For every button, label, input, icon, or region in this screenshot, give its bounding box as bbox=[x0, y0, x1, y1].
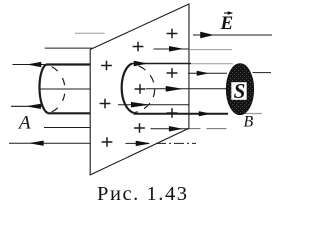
vector E label arrow bbox=[224, 12, 230, 14]
cylinder A top side bbox=[46, 63, 91, 65]
field line y=128.8 continuation beyond plane edge bbox=[190, 128, 201, 130]
field line E (top right) bbox=[193, 34, 272, 36]
arrowhead (right) on y=128.8 field line bbox=[169, 126, 181, 131]
cylinder A cap (hidden half, dashed) bbox=[46, 65, 65, 114]
field line y=73.3 bbox=[188, 72, 227, 74]
field line (left, y=143) bbox=[9, 142, 91, 144]
plus charge row2 col-mid bbox=[133, 42, 144, 51]
arrowhead (right) on cylinder B top side bbox=[134, 61, 147, 66]
arrowhead (left) on y=143 field line bbox=[30, 141, 43, 146]
cylinder B cap (hidden half, dashed) bbox=[132, 64, 155, 113]
field line y=143.4 bbox=[126, 142, 150, 144]
svg-text:B: B bbox=[244, 114, 254, 131]
field line y=128.8 bbox=[151, 128, 190, 130]
field line y=49 continuation (faint) bbox=[190, 49, 232, 51]
arrowhead (right) on cylinder B axis line bbox=[166, 86, 181, 91]
svg-text:E: E bbox=[220, 13, 234, 34]
plus charge row1 col-right bbox=[167, 29, 178, 38]
cylinder B bottom side continuation (faint) bbox=[244, 113, 262, 115]
disk S (shaded end cap) bbox=[226, 64, 253, 115]
field line (left, faint, y=33) bbox=[75, 32, 105, 34]
field line (left, y=48) bbox=[45, 47, 93, 49]
cylinder A bottom side bbox=[48, 112, 91, 114]
arrowhead (left) on bottom cylinder-A field line bbox=[28, 104, 41, 109]
cylinder B top side continuation (faint) bbox=[191, 63, 233, 65]
svg-text:Рис. 1.43: Рис. 1.43 bbox=[97, 183, 189, 205]
plus charge row3 col-left bbox=[101, 61, 112, 70]
plus charge row7 col-right (on cylinder B bottom side) bbox=[167, 108, 178, 117]
arrowhead (right) on E field line bbox=[201, 32, 214, 38]
field line (left, y=127.5) bbox=[44, 127, 90, 129]
arrowhead (right) on y=73.3 field line bbox=[197, 71, 208, 75]
arrowhead (right) on y=143.4 field line bbox=[136, 141, 149, 146]
field line (left, bottom of cylinder A) bbox=[11, 105, 43, 107]
cylinder A cap (front half) bbox=[39, 65, 48, 114]
plus charge row5 col-mid (inside cylinder B cap) bbox=[135, 84, 146, 93]
charged plane (parallelogram outline) bbox=[90, 4, 189, 175]
plus charge row6 col-left bbox=[100, 99, 111, 108]
plus charge row9 col-left bbox=[102, 137, 113, 146]
svg-text:A: A bbox=[17, 113, 31, 134]
cylinder B bottom side bbox=[134, 113, 229, 115]
field line y=104.7 (through cylinder B cap) bbox=[118, 104, 190, 106]
cylinder B cap (front half) bbox=[122, 64, 134, 113]
cylinder B top side bbox=[132, 63, 191, 65]
svg-text:S: S bbox=[234, 79, 246, 103]
arrowhead (right) on y=104.7 field line bbox=[131, 102, 147, 107]
cylinder A axis field line bbox=[40, 88, 90, 90]
plus charge row8 col-mid bbox=[134, 123, 145, 132]
arrowhead (right) on y=49 field line bbox=[169, 46, 182, 51]
label box for S bbox=[231, 82, 246, 100]
field line y=49 (right of mid plus) bbox=[154, 48, 190, 50]
arrowhead (left) on top-left field line bbox=[28, 62, 41, 67]
plus charge row4 col-right bbox=[167, 68, 178, 77]
field line y=143.4 continuation (dash-dot) bbox=[156, 142, 196, 144]
field line (left, top of cylinder A) bbox=[13, 64, 47, 66]
arrowhead (right) on cylinder B bottom side bbox=[199, 112, 210, 116]
field line y=72.6 right of disk S bbox=[253, 72, 272, 74]
field line y=88.8 (cylinder B axis) bbox=[146, 88, 227, 90]
